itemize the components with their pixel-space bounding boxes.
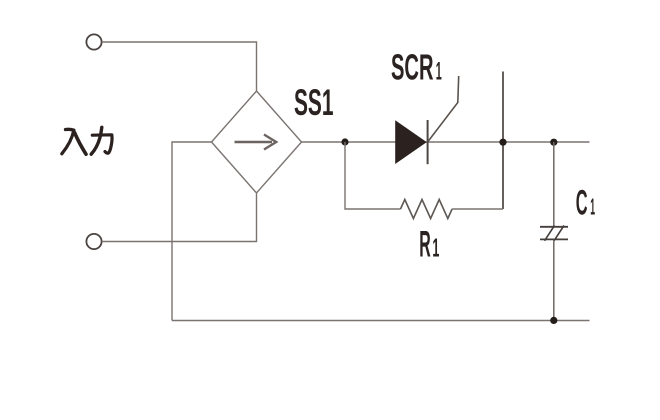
svg-text:SS1: SS1 xyxy=(294,81,334,123)
wire top terminal to bridge top xyxy=(102,42,257,91)
resistor R1 zigzag xyxy=(401,200,453,219)
input terminal (bottom) xyxy=(86,234,101,249)
bottom rail wire xyxy=(172,320,590,322)
input terminal (top) xyxy=(86,34,101,49)
wire resistor to cathode branch xyxy=(452,208,503,210)
svg-text:SCR: SCR xyxy=(391,47,434,88)
node junction at anode xyxy=(341,138,348,145)
wire anode node down to resistor xyxy=(345,142,401,209)
rectifier SS1 (diamond) xyxy=(212,91,302,193)
arrow inside rectifier xyxy=(235,141,273,143)
vertical wire through cathode node xyxy=(502,72,504,210)
wire bottom terminal to bridge bottom xyxy=(102,194,257,242)
capacitor C1 top lead xyxy=(553,142,555,227)
svg-text:R: R xyxy=(419,223,431,265)
wire bridge left vertex to bottom rail xyxy=(172,142,212,321)
svg-text:1: 1 xyxy=(436,58,442,86)
capacitor C1 plates xyxy=(540,226,568,228)
SCR1 gate wire xyxy=(428,76,459,142)
main horizontal wire (bridge right vertex to right end) xyxy=(302,141,590,143)
label 入力 (input) xyxy=(62,127,112,154)
capacitor C1 bottom lead xyxy=(553,240,555,321)
SCR1 cathode bar xyxy=(427,120,429,164)
capacitor C1 slashes xyxy=(545,226,555,241)
svg-text:C: C xyxy=(576,183,588,223)
node junction capacitor to bottom rail xyxy=(550,317,557,324)
node junction at top of capacitor branch xyxy=(550,139,557,146)
node junction at cathode xyxy=(499,139,506,146)
SCR1 thyristor: anode triangle xyxy=(396,121,427,164)
svg-text:1: 1 xyxy=(590,194,595,220)
svg-text:1: 1 xyxy=(432,233,439,263)
